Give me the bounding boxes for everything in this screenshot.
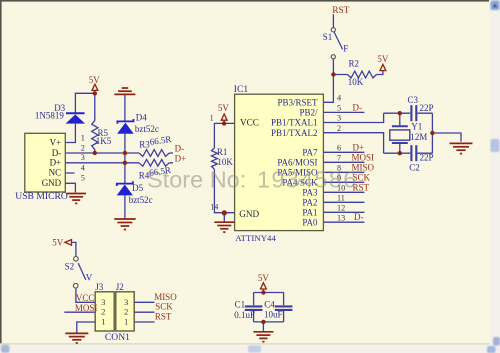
svg-text:2: 2	[124, 307, 128, 317]
svg-text:RST: RST	[332, 6, 349, 16]
svg-text:4: 4	[337, 93, 341, 102]
svg-text:1: 1	[101, 316, 105, 326]
svg-text:VCC: VCC	[76, 293, 95, 303]
svg-text:7: 7	[337, 153, 341, 162]
svg-text:IC1: IC1	[234, 84, 249, 95]
svg-text:3: 3	[124, 297, 128, 307]
svg-text:1: 1	[210, 114, 214, 123]
svg-text:ATTINY44: ATTINY44	[235, 233, 276, 243]
svg-text:2: 2	[101, 307, 105, 317]
svg-text:5V: 5V	[377, 54, 389, 64]
svg-text:SCK: SCK	[155, 302, 173, 312]
svg-text:1K5: 1K5	[96, 136, 112, 146]
svg-text:10uF: 10uF	[264, 310, 283, 320]
svg-text:6: 6	[337, 143, 341, 152]
svg-text:D4: D4	[136, 113, 147, 123]
svg-text:USB MICRO: USB MICRO	[15, 191, 68, 202]
svg-text:C3: C3	[408, 95, 419, 105]
svg-text:10K: 10K	[348, 77, 364, 87]
svg-text:14: 14	[210, 202, 218, 211]
svg-text:1: 1	[124, 316, 128, 326]
svg-text:3: 3	[81, 153, 85, 162]
svg-text:PB2/: PB2/	[299, 108, 318, 118]
svg-text:22P: 22P	[420, 103, 434, 113]
svg-text:3: 3	[101, 297, 105, 307]
svg-text:D-: D-	[354, 212, 364, 222]
svg-text:5: 5	[81, 173, 85, 182]
svg-text:GND: GND	[239, 209, 259, 219]
svg-text:bzt52c: bzt52c	[129, 195, 153, 205]
svg-text:PB1/TXAL1: PB1/TXAL1	[271, 118, 318, 128]
svg-text:PB1/TXAL2: PB1/TXAL2	[271, 128, 318, 138]
svg-text:PA2: PA2	[302, 197, 317, 207]
svg-text:22P: 22P	[420, 152, 434, 162]
svg-text:D5: D5	[132, 183, 143, 193]
svg-text:MISO: MISO	[154, 292, 177, 302]
svg-text:11: 11	[337, 193, 345, 202]
svg-text:MOSI: MOSI	[352, 152, 375, 162]
svg-text:1: 1	[81, 134, 85, 143]
svg-text:Y1: Y1	[411, 122, 422, 132]
svg-text:R3: R3	[139, 140, 150, 150]
svg-text:4: 4	[81, 163, 85, 172]
svg-text:D+: D+	[50, 158, 62, 168]
svg-text:12M: 12M	[410, 132, 427, 142]
svg-text:5: 5	[337, 104, 341, 113]
svg-text:S1: S1	[323, 32, 333, 42]
svg-text:5V: 5V	[258, 273, 270, 283]
svg-text:F: F	[343, 43, 348, 53]
svg-text:PA0: PA0	[302, 217, 318, 227]
svg-text:R2: R2	[349, 58, 360, 68]
svg-text:S2: S2	[65, 261, 75, 271]
svg-text:RST: RST	[155, 311, 172, 321]
svg-text:MOSI: MOSI	[75, 303, 98, 313]
svg-text:V: V	[86, 272, 93, 282]
svg-text:13: 13	[337, 213, 345, 222]
svg-text:R1: R1	[217, 147, 228, 157]
svg-text:VCC: VCC	[240, 118, 259, 128]
svg-text:12: 12	[337, 203, 345, 212]
svg-text:10K: 10K	[217, 157, 233, 167]
svg-text:C4: C4	[264, 300, 275, 310]
svg-text:PB3/RSET: PB3/RSET	[277, 97, 318, 107]
svg-text:2: 2	[337, 124, 341, 133]
svg-text:J3: J3	[95, 282, 104, 292]
svg-text:PA1: PA1	[302, 207, 317, 217]
svg-text:PA7: PA7	[302, 147, 318, 157]
svg-text:D+: D+	[353, 142, 365, 152]
svg-text:1N5819: 1N5819	[35, 111, 64, 121]
svg-text:C1: C1	[235, 300, 246, 310]
svg-text:bzt52c: bzt52c	[135, 124, 159, 134]
svg-text:3: 3	[337, 114, 341, 123]
svg-text:0.1uF: 0.1uF	[234, 310, 255, 320]
svg-text:NC: NC	[49, 168, 62, 178]
svg-text:V+: V+	[50, 137, 62, 147]
svg-text:C2: C2	[409, 163, 420, 173]
svg-text:J2: J2	[116, 282, 124, 292]
svg-text:2: 2	[81, 143, 85, 152]
svg-text:D-: D-	[175, 144, 185, 154]
svg-text:5V: 5V	[218, 103, 230, 113]
svg-text:D-: D-	[353, 102, 363, 112]
svg-text:GND: GND	[42, 178, 62, 188]
svg-text:D+: D+	[175, 154, 187, 164]
svg-text:5V: 5V	[52, 237, 64, 247]
svg-text:CON1: CON1	[105, 332, 130, 343]
svg-text:5V: 5V	[89, 75, 101, 85]
